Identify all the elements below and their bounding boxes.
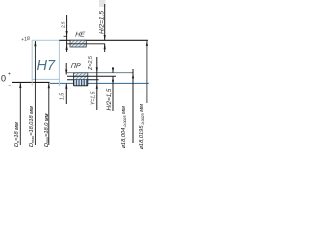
wire gauge size dimension shaft (PR size) xyxy=(132,69,134,143)
svg-text:H/2=1,5: H/2=1,5 xyxy=(106,88,113,110)
svg-text:−: − xyxy=(8,83,11,89)
svg-text:Dmin=18,0 мм: Dmin=18,0 мм xyxy=(44,113,50,147)
wire PR top line xyxy=(67,72,134,74)
node faint artifact block top-right xyxy=(99,0,106,7)
wire H/2 dimension shaft upper-left with ticks xyxy=(64,15,68,52)
svg-text:1,5: 1,5 xyxy=(60,93,66,100)
node hole tolerance zone H7 rectangle xyxy=(32,40,59,86)
wire dimension line Dmax xyxy=(34,41,36,145)
node zero-line label 0 xyxy=(1,72,11,90)
wire H/2 dimension at NE (top) xyxy=(104,4,106,52)
svg-text:0: 0 xyxy=(1,74,6,84)
node wear zone (vertical stripes) xyxy=(74,80,88,86)
wire dimension line Dn (nominal) xyxy=(19,83,21,145)
wire NE mid line xyxy=(67,43,106,45)
wire dimension line Dmin xyxy=(48,83,50,145)
wire PR bottom line xyxy=(67,79,99,81)
svg-text:ПР: ПР xyxy=(70,63,81,70)
svg-text:Z=2,5: Z=2,5 xyxy=(88,55,94,71)
svg-text:Y=1,5: Y=1,5 xyxy=(90,91,96,105)
svg-text:+: + xyxy=(8,72,11,78)
wire Dmax line (black) across top xyxy=(59,39,148,41)
wire Z dimension shaft xyxy=(96,57,98,110)
node NOT-GO gauge zone NE (hatched) xyxy=(70,40,86,47)
wire Dmin extension line (blue) to right edge xyxy=(50,82,149,84)
wire Y dimension shaft mid-left xyxy=(65,63,67,75)
wire zero line (black, Dmin level) xyxy=(12,81,50,83)
svg-text:Dmax=18,018 мм: Dmax=18,018 мм xyxy=(29,106,35,147)
wire PR mid line xyxy=(67,75,116,77)
svg-text:2,5: 2,5 xyxy=(61,21,66,29)
svg-text:НЕ: НЕ xyxy=(75,31,86,38)
wire Y dimension shaft lower-left xyxy=(65,83,67,104)
node GO gauge zone PR (hatched) xyxy=(74,73,88,80)
svg-text:Dн=18 мм: Dн=18 мм xyxy=(14,122,20,147)
svg-text:H/2=1,5: H/2=1,5 xyxy=(98,11,105,34)
wire H/2 dimension at PR xyxy=(112,67,114,111)
wire gauge size dimension shaft (NE size) xyxy=(146,41,148,104)
svg-text:⌀18,0195-0,0025 мм: ⌀18,0195-0,0025 мм xyxy=(139,104,145,150)
svg-text:H7: H7 xyxy=(37,58,56,74)
